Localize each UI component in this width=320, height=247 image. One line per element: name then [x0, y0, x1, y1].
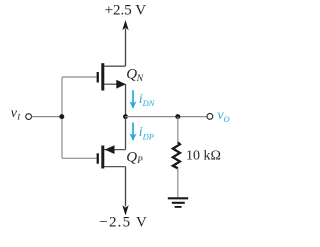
supply label -2.5 V [99, 215, 148, 231]
VSS supply arrow [122, 167, 128, 216]
svg-text:DP: DP [142, 131, 154, 141]
label 10 kOhm [186, 149, 221, 164]
label QP [126, 149, 143, 165]
wire vI to gate bus [32, 116, 62, 118]
resistor top lead [177, 117, 179, 143]
svg-text:P: P [136, 155, 143, 165]
svg-text:Q: Q [126, 149, 137, 165]
svg-text:−2.5 V: −2.5 V [99, 215, 148, 231]
label QN [126, 67, 144, 84]
svg-text:Q: Q [126, 67, 137, 83]
resistor tap junction dot [175, 114, 180, 119]
label vI [11, 106, 21, 121]
label vO [217, 108, 229, 124]
wire output node to QP source [125, 117, 127, 150]
current arrow iDN [130, 90, 137, 109]
svg-text:O: O [224, 114, 230, 124]
label iDN [139, 92, 156, 108]
svg-text:+2.5 V: +2.5 V [105, 2, 147, 18]
resistor R 10k zigzag [173, 142, 180, 168]
svg-text:10 kΩ: 10 kΩ [186, 149, 221, 164]
gate bus wire [62, 77, 97, 158]
current arrow iDP [130, 122, 137, 140]
supply label +2.5 V [105, 2, 147, 18]
transistor QN [97, 63, 126, 90]
label iDP [139, 125, 154, 141]
input terminal circle [26, 114, 32, 120]
ground [168, 198, 188, 207]
resistor bottom lead [177, 168, 179, 197]
transistor QP [97, 145, 126, 168]
svg-text:DN: DN [142, 98, 156, 108]
output node dot [123, 114, 128, 119]
output wire to vO [126, 116, 207, 118]
junction dot gate bus [59, 114, 64, 119]
output terminal circle [207, 114, 213, 120]
VDD supply arrow [122, 20, 128, 66]
svg-text:N: N [136, 74, 144, 84]
wire QN source to output node [125, 84, 127, 116]
svg-text:I: I [16, 111, 21, 121]
